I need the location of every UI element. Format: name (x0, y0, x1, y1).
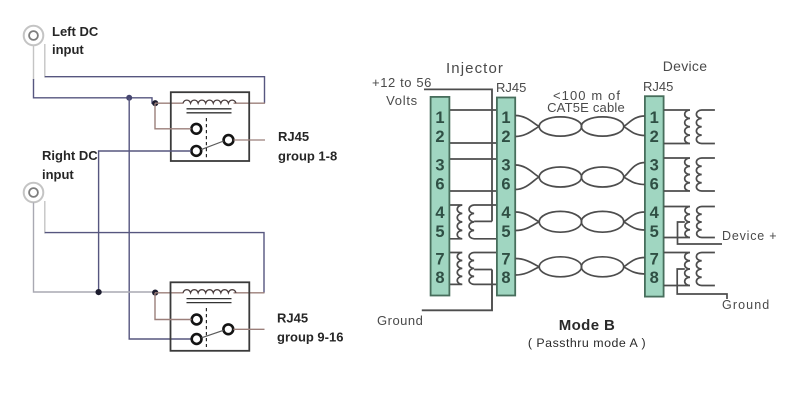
wire node E down to S2 contact 1 (155, 293, 192, 320)
box RJ45 group 9-16 module (171, 282, 250, 351)
node A junction dot (126, 95, 132, 101)
svg-text:Injector: Injector (446, 60, 504, 77)
transformer device pins 3-6 left winding (664, 158, 690, 191)
svg-text:3: 3 (501, 157, 510, 175)
svg-text:2: 2 (650, 128, 659, 146)
svg-text:Ground: Ground (722, 298, 770, 312)
transformer T2 winding (183, 290, 236, 293)
svg-text:4: 4 (650, 204, 660, 222)
wire T1 coil right to top loop (234, 102, 266, 104)
switch S2 dashed divider (205, 308, 207, 347)
wire J2 right terminal down (44, 201, 46, 234)
transformer device pins 1-2 left winding (664, 110, 690, 144)
transformer T3 pins 4-5 left winding (449, 205, 462, 239)
wire +V feed (424, 89, 492, 221)
switch S1 common contact (224, 135, 234, 145)
wire J1 right terminal down (44, 44, 46, 78)
transformer device pins 3-6 right winding (696, 158, 715, 191)
wire J2 left terminal down to bottom rail (34, 203, 156, 293)
wire pin6 injector passthrough (449, 190, 497, 192)
cable twisted pair 7-8 (515, 259, 539, 267)
svg-text:input: input (42, 167, 74, 182)
wire J1 right terminal top loop to T1 secondary right (45, 77, 265, 104)
svg-text:1: 1 (435, 109, 444, 127)
wire J1 left terminal down (33, 46, 35, 81)
wire S1 contact 2 left and down to node D (99, 151, 192, 292)
wire node B down to S1 contact 1 (155, 103, 191, 129)
wire device ground tap (677, 269, 727, 299)
switch S2 common contact (223, 324, 233, 334)
svg-text:group 9-16: group 9-16 (277, 330, 343, 345)
pin numbers device (650, 109, 660, 287)
transformer device pins 4-5 left winding (664, 207, 690, 238)
node D junction dot (96, 289, 102, 295)
svg-text:5: 5 (501, 223, 510, 241)
connector J1 Left DC input (24, 26, 44, 46)
svg-text:RJ45: RJ45 (643, 79, 673, 94)
wire pin1 injector passthrough (449, 109, 497, 111)
svg-text:2: 2 (435, 128, 444, 146)
svg-text:4: 4 (501, 204, 511, 222)
svg-text:8: 8 (435, 269, 444, 287)
wire S2 common to RJ45 group 9-16 (233, 328, 264, 330)
svg-text:RJ45: RJ45 (278, 129, 309, 144)
wire T2 coil right (234, 292, 265, 294)
cable twisted pair 3-6 (515, 165, 539, 177)
svg-text:1: 1 (650, 109, 659, 127)
svg-text:2: 2 (501, 128, 510, 146)
svg-text:group 1-8: group 1-8 (278, 149, 337, 164)
switch S1 dashed divider (205, 118, 207, 158)
RJ45 jack column injector input (431, 97, 450, 296)
svg-text:5: 5 (435, 223, 444, 241)
transformer T4 pins 7-8 left winding (449, 253, 462, 285)
wire T3 center tap to +V (474, 220, 492, 222)
wire T4 center tap to ground (474, 269, 492, 271)
svg-text:Device: Device (663, 58, 708, 74)
svg-text:6: 6 (650, 176, 659, 194)
svg-text:+12 to 56: +12 to 56 (372, 75, 432, 90)
cable twisted pair 4-5 (515, 212, 539, 222)
pin numbers injector output (501, 109, 511, 287)
transformer T3 pins 4-5 right winding (469, 205, 499, 239)
transformer device pins 1-2 right winding (696, 110, 715, 144)
wire node B to T1 coil left (155, 102, 184, 104)
svg-text:Right DC: Right DC (42, 148, 98, 163)
switch S2 blade (202, 330, 224, 338)
svg-text:RJ45: RJ45 (277, 311, 308, 326)
svg-text:8: 8 (501, 269, 510, 287)
svg-text:1: 1 (501, 109, 510, 127)
transformer T1 winding (183, 100, 236, 103)
label RJ45 group 9-16 (277, 311, 343, 345)
svg-text:RJ45: RJ45 (496, 80, 526, 95)
wire J2 right terminal loop to T2 secondary right (45, 233, 264, 293)
label Left DC input (52, 24, 99, 57)
label +12 to 56 Volts (372, 75, 432, 108)
svg-text:6: 6 (501, 176, 510, 194)
transformer T1 core lines (187, 109, 232, 113)
switch S1 contact 1 (191, 124, 201, 134)
svg-text:8: 8 (650, 269, 659, 287)
node E junction dot (152, 290, 158, 296)
svg-text:( Passthru mode A ): ( Passthru mode A ) (528, 336, 646, 350)
transformer device pins 7-8 left winding (664, 253, 690, 286)
svg-text:6: 6 (435, 176, 444, 194)
svg-text:4: 4 (435, 204, 445, 222)
svg-text:5: 5 (650, 223, 659, 241)
wire node E to T2 coil left (155, 292, 184, 294)
wire injector ground (422, 270, 492, 311)
wire J1 left terminal to node A (34, 79, 157, 103)
pin numbers injector input (435, 109, 445, 287)
label cable length (547, 88, 625, 115)
svg-text:Ground: Ground (377, 313, 423, 328)
svg-text:Device +: Device + (722, 229, 777, 243)
svg-text:7: 7 (501, 251, 510, 269)
switch S2 contact 1 (192, 315, 202, 325)
svg-text:CAT5E cable: CAT5E cable (547, 100, 625, 115)
svg-text:Mode B: Mode B (559, 317, 616, 334)
label Right DC input (42, 148, 98, 182)
svg-text:3: 3 (435, 157, 444, 175)
wire pin3 injector passthrough (449, 158, 497, 160)
cable twisted pair 1-2 (515, 116, 539, 127)
label RJ45 group 1-8 (278, 129, 337, 164)
switch S1 contact 2 (191, 146, 201, 156)
transformer device pins 7-8 right winding (696, 253, 715, 286)
svg-text:7: 7 (650, 251, 659, 269)
transformer T2 core lines (187, 299, 232, 303)
box RJ45 group 1-8 module (171, 92, 249, 161)
wire S1 common to RJ45 group 1-8 (234, 139, 265, 141)
wire node A down to S2 contact 2 (129, 98, 191, 339)
switch S2 contact 2 (192, 334, 202, 344)
RJ45 jack column device (645, 96, 664, 296)
svg-text:3: 3 (650, 157, 659, 175)
wire pin2 injector passthrough (449, 142, 497, 144)
svg-text:Volts: Volts (386, 93, 418, 108)
RJ45 jack column injector output (497, 98, 515, 296)
connector J2 Right DC input (24, 183, 44, 203)
node B junction dot (152, 100, 158, 106)
transformer T4 pins 7-8 right winding (469, 253, 499, 285)
transformer device pins 4-5 right winding (697, 207, 715, 238)
svg-text:7: 7 (435, 251, 444, 269)
svg-text:Left DC: Left DC (52, 24, 99, 39)
svg-text:input: input (52, 42, 84, 57)
wire device + tap (678, 222, 723, 244)
switch S1 blade (201, 141, 224, 150)
